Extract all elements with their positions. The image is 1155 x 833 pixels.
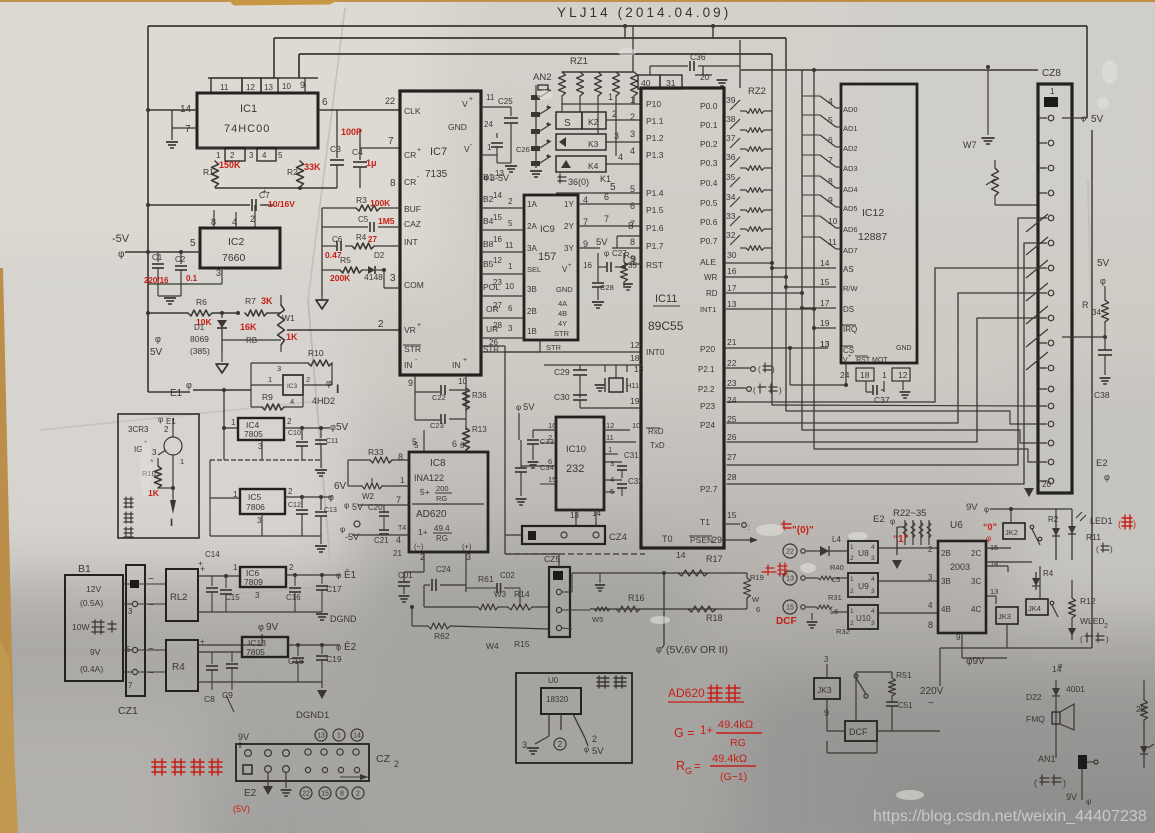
svg-text:φ: φ — [584, 745, 589, 754]
svg-text:C37: C37 — [874, 395, 890, 405]
svg-text:IC10: IC10 — [566, 444, 586, 455]
svg-text:P0.1: P0.1 — [700, 120, 718, 130]
svg-text:14: 14 — [820, 258, 830, 268]
svg-text:P1.2: P1.2 — [646, 133, 664, 143]
svg-text:157: 157 — [538, 251, 556, 263]
svg-text:U9: U9 — [858, 581, 869, 591]
svg-text:AN1: AN1 — [1038, 754, 1056, 764]
svg-text:9: 9 — [631, 254, 636, 264]
svg-text:1: 1 — [608, 445, 612, 454]
svg-text:IC1: IC1 — [240, 103, 257, 115]
svg-text:22: 22 — [786, 549, 794, 556]
svg-text:5V: 5V — [352, 502, 363, 512]
svg-text:5V: 5V — [1091, 114, 1104, 125]
wires AD pins to bus — [802, 95, 820, 97]
svg-text:CLK: CLK — [404, 106, 421, 116]
ground R35 — [623, 283, 633, 285]
svg-text:3B: 3B — [941, 577, 951, 586]
svg-text:20: 20 — [1042, 480, 1051, 489]
svg-text:=: = — [694, 761, 701, 773]
wire R1 R2 bottom — [215, 187, 337, 189]
svg-text:φ: φ — [984, 505, 989, 514]
svg-text:24: 24 — [840, 370, 850, 380]
DGND — [198, 611, 322, 613]
svg-text:34: 34 — [1092, 308, 1101, 317]
wire 9V rail — [990, 508, 1040, 510]
IC5 ground — [261, 514, 263, 536]
wire D1 to RB row — [221, 340, 223, 352]
whiteout patches — [140, 48, 1118, 800]
svg-text:φ: φ — [656, 644, 662, 654]
svg-text:4: 4 — [262, 151, 267, 160]
svg-text:T1: T1 — [700, 517, 710, 527]
svg-text:6: 6 — [452, 439, 457, 449]
svg-text:3: 3 — [152, 448, 157, 457]
ground spur lineA — [599, 573, 601, 583]
svg-text:JK2: JK2 — [1005, 528, 1018, 537]
wire IC2 pin3 down — [148, 283, 222, 285]
svg-text:(5V,6V OR II): (5V,6V OR II) — [666, 644, 728, 656]
svg-text:C36: C36 — [690, 52, 706, 62]
ground IC4 — [320, 460, 322, 468]
svg-text:4: 4 — [630, 146, 635, 156]
svg-text:7: 7 — [604, 214, 609, 224]
svg-text:1A: 1A — [527, 200, 537, 209]
svg-text:13: 13 — [317, 733, 325, 740]
svg-text:RL2: RL2 — [170, 592, 187, 603]
wire RD to bus C — [724, 292, 802, 294]
svg-text:7: 7 — [185, 124, 191, 135]
svg-text:(: ( — [1118, 519, 1121, 529]
svg-text:+: + — [568, 263, 572, 269]
svg-text:T0: T0 — [662, 534, 673, 544]
svg-text:3: 3 — [610, 459, 614, 468]
IC1 top pin boxes 11 12 13 — [211, 78, 242, 93]
svg-text:11: 11 — [505, 241, 514, 250]
JK4 switch — [1050, 601, 1054, 605]
wire IC1 pin9 up — [298, 54, 300, 78]
wire crystal legs — [604, 365, 606, 372]
IC13 7805 box — [242, 637, 288, 657]
svg-text:6: 6 — [460, 441, 465, 450]
svg-text:(5V): (5V) — [233, 804, 250, 814]
svg-text:T4: T4 — [398, 525, 406, 532]
svg-text:(0.5A): (0.5A) — [80, 598, 103, 608]
svg-text:28: 28 — [493, 321, 502, 330]
svg-text:C22: C22 — [432, 393, 446, 402]
wire P20 to IC12 CS — [724, 347, 828, 349]
svg-text:Ē1: Ē1 — [344, 569, 357, 581]
wire -5V to IC2 pin5 — [125, 251, 200, 253]
svg-text:1: 1 — [400, 476, 405, 485]
svg-text:4A: 4A — [558, 299, 567, 308]
svg-text:IN: IN — [404, 360, 413, 370]
svg-text:8069: 8069 — [190, 334, 209, 344]
svg-text:“0”: “0” — [983, 522, 997, 532]
svg-text:RD: RD — [706, 289, 718, 298]
LED1 diode — [1071, 515, 1073, 560]
svg-text:C25: C25 — [498, 97, 513, 106]
svg-text:CR: CR — [404, 177, 416, 187]
svg-text:7805: 7805 — [246, 647, 265, 657]
svg-text:18320: 18320 — [546, 695, 569, 704]
svg-text:11: 11 — [828, 237, 837, 247]
wire title drop 1 — [624, 26, 626, 38]
svg-text:φ: φ — [155, 334, 161, 344]
svg-text:DCF: DCF — [849, 727, 868, 737]
svg-text:5V: 5V — [150, 347, 163, 358]
wire IC13 out — [288, 644, 340, 646]
wire R5 junction — [382, 268, 386, 272]
svg-text:4: 4 — [871, 608, 875, 615]
svg-text:~: ~ — [928, 698, 934, 709]
thyristor symbol — [1140, 746, 1148, 754]
wire bottom bus 9V — [940, 647, 1092, 649]
svg-text:): ) — [772, 365, 775, 374]
svg-text:I: I — [336, 382, 339, 396]
svg-text:C51: C51 — [898, 701, 913, 710]
svg-text:C2: C2 — [175, 255, 186, 264]
svg-text:1K: 1K — [286, 332, 298, 342]
svg-text:2: 2 — [1104, 623, 1108, 630]
svg-text:3: 3 — [255, 591, 260, 600]
svg-text:37: 37 — [726, 133, 736, 143]
svg-text:9V: 9V — [966, 502, 978, 513]
svg-text:R33: R33 — [368, 447, 384, 457]
svg-text:E2: E2 — [1096, 458, 1108, 469]
cewen label strokes — [597, 676, 626, 688]
caps C8 C9 area — [211, 652, 213, 664]
svg-text:4: 4 — [290, 397, 294, 406]
svg-text:P0.3: P0.3 — [700, 158, 718, 168]
svg-text:7806: 7806 — [246, 502, 265, 512]
svg-text:1: 1 — [268, 375, 272, 384]
wires CZ1 to RL2 — [138, 583, 166, 585]
svg-text:RST: RST — [856, 357, 871, 364]
svg-text:10: 10 — [282, 82, 291, 91]
svg-text:12: 12 — [493, 256, 502, 265]
svg-text:RZ1: RZ1 — [570, 56, 588, 67]
svg-text:R7: R7 — [245, 296, 256, 306]
svg-text:C20: C20 — [368, 503, 383, 512]
svg-text:R51: R51 — [896, 670, 912, 680]
svg-text:AD6: AD6 — [843, 225, 858, 234]
wire E1 to IC3 — [223, 390, 225, 428]
wire CZ5 top — [558, 554, 560, 567]
svg-text:S: S — [564, 118, 571, 129]
wires AS RW DS IRQ to buses — [772, 267, 836, 269]
key K4 box — [556, 156, 606, 172]
svg-text:R16: R16 — [628, 593, 645, 603]
IC2 7660 box — [200, 228, 280, 268]
diode D14 — [1039, 566, 1041, 599]
svg-text:W5: W5 — [592, 615, 603, 624]
AN2 button symbol — [538, 85, 548, 90]
wire IC8 out2 bus — [423, 585, 425, 607]
svg-text:2: 2 — [378, 319, 384, 330]
svg-text:49.4: 49.4 — [434, 524, 450, 533]
svg-text:232: 232 — [566, 463, 584, 475]
svg-text:P0.5: P0.5 — [700, 198, 718, 208]
IC11 89C55 box — [641, 88, 724, 548]
svg-text:18: 18 — [860, 370, 870, 380]
svg-text:12: 12 — [898, 370, 908, 380]
svg-text:φ: φ — [330, 422, 336, 432]
wire CZ4 left down — [505, 534, 522, 536]
svg-text:12: 12 — [630, 340, 640, 350]
CZ8 box — [1038, 84, 1072, 493]
RZ1 resistors — [559, 72, 566, 96]
svg-text:3: 3 — [630, 129, 635, 139]
wire top outer rail — [148, 25, 1087, 27]
svg-text:7: 7 — [128, 681, 133, 690]
svg-text:13: 13 — [570, 511, 579, 520]
wire RZ1 col1 to P10 — [562, 103, 641, 105]
svg-text:E1: E1 — [170, 388, 183, 399]
svg-text:3: 3 — [466, 552, 471, 562]
svg-text:φ: φ — [258, 622, 264, 632]
svg-text:1+: 1+ — [700, 725, 713, 737]
resistor R10star — [155, 466, 162, 488]
svg-text:CAZ: CAZ — [404, 219, 421, 229]
svg-text:C12: C12 — [288, 502, 301, 509]
wire right rail bottom — [1091, 620, 1093, 648]
svg-text:“1”: “1” — [893, 534, 909, 545]
IC9 157 box — [524, 195, 578, 340]
svg-text:27: 27 — [727, 452, 737, 462]
wire IC4 out — [284, 427, 330, 429]
svg-text:U8: U8 — [858, 548, 869, 558]
svg-text:C31: C31 — [624, 451, 639, 460]
wire IC6 out — [286, 574, 340, 576]
bus lines to CZ8 lower circles — [772, 405, 1038, 406]
svg-text:RZ2: RZ2 — [748, 86, 766, 97]
CZ2 bottom row — [243, 765, 252, 774]
svg-text:φ: φ — [1104, 472, 1110, 482]
svg-text:11: 11 — [486, 93, 495, 102]
right rail below 5V — [1091, 130, 1093, 620]
svg-text:K2: K2 — [588, 117, 599, 127]
svg-text:2: 2 — [394, 759, 399, 769]
svg-text:R: R — [676, 759, 685, 773]
svg-text:24: 24 — [484, 120, 493, 129]
svg-text:DCF: DCF — [776, 616, 797, 627]
svg-text:16: 16 — [727, 266, 737, 276]
ground top right — [987, 70, 989, 135]
svg-text:C1: C1 — [152, 253, 163, 262]
svg-text:P24: P24 — [700, 420, 715, 430]
svg-text:11: 11 — [220, 83, 229, 92]
svg-text:20: 20 — [700, 72, 710, 82]
svg-text:W2: W2 — [362, 492, 375, 501]
svg-text:(: ( — [1034, 778, 1037, 788]
LED1 red chong — [1122, 515, 1132, 529]
vertical bus C — [801, 70, 803, 430]
svg-text:V: V — [462, 99, 468, 109]
svg-text:5: 5 — [190, 238, 196, 249]
svg-text:G: G — [685, 766, 692, 776]
circled 15 input DCF — [783, 600, 797, 614]
svg-text:21: 21 — [393, 549, 402, 558]
svg-text:"(0)": "(0)" — [792, 525, 814, 536]
svg-text:φ: φ — [1086, 797, 1091, 806]
nested L wires P23-P28 to CZ8 — [727, 268, 1038, 402]
RL2 rectifier box — [166, 569, 198, 621]
svg-text:GND: GND — [448, 122, 467, 132]
svg-text:C5: C5 — [358, 215, 369, 224]
svg-text:2: 2 — [356, 791, 360, 798]
svg-text:~: ~ — [148, 668, 154, 679]
svg-text:11: 11 — [606, 433, 614, 442]
DGND1 arrow — [212, 681, 322, 683]
svg-text:19: 19 — [630, 396, 640, 406]
svg-text:DS: DS — [843, 305, 854, 314]
svg-text:2: 2 — [250, 214, 255, 224]
svg-text:C11: C11 — [326, 438, 338, 445]
STR bottom wire — [539, 340, 541, 352]
svg-text:6: 6 — [548, 457, 552, 466]
svg-text:U6: U6 — [950, 520, 963, 531]
svg-text:P2.1: P2.1 — [698, 365, 715, 374]
svg-text:16: 16 — [548, 421, 556, 430]
svg-text:JK4: JK4 — [1028, 604, 1041, 613]
svg-text:IC8: IC8 — [430, 458, 446, 469]
wire P17 row — [612, 247, 641, 249]
svg-text:36: 36 — [726, 152, 736, 162]
svg-text:23: 23 — [727, 378, 737, 388]
svg-text:150K: 150K — [219, 160, 241, 170]
svg-text:R19: R19 — [750, 573, 764, 582]
relay switch lower — [855, 672, 857, 712]
svg-text:IC7: IC7 — [430, 146, 447, 158]
svg-text:4B: 4B — [941, 605, 951, 614]
red he 0 label — [782, 521, 791, 530]
svg-text:4: 4 — [871, 576, 875, 583]
wire title drop 2 — [712, 26, 714, 38]
svg-text:WR: WR — [704, 273, 718, 282]
svg-text:BUF: BUF — [404, 204, 421, 214]
svg-text:W1: W1 — [282, 313, 295, 323]
svg-text:2: 2 — [164, 425, 169, 434]
svg-text:2: 2 — [592, 734, 597, 744]
svg-text:INT0: INT0 — [646, 347, 665, 357]
wires IC9 outputs to IC11 — [578, 203, 641, 205]
svg-text:5: 5 — [278, 151, 283, 160]
wire 26 to INT0 — [505, 351, 641, 353]
svg-text:φ: φ — [326, 378, 332, 388]
svg-text:5V: 5V — [1097, 258, 1110, 269]
svg-text:R3: R3 — [356, 195, 367, 205]
svg-text:22: 22 — [302, 791, 310, 798]
svg-text:φ: φ — [336, 571, 341, 580]
svg-text:35: 35 — [726, 172, 736, 182]
svg-text:2: 2 — [850, 588, 854, 595]
svg-text:3: 3 — [871, 588, 875, 595]
svg-text:JK3: JK3 — [817, 685, 832, 695]
svg-text:C38: C38 — [1094, 390, 1110, 400]
svg-text:CZ8: CZ8 — [1042, 68, 1061, 79]
svg-text:1: 1 — [508, 262, 513, 271]
circled 13 input — [783, 571, 797, 585]
svg-text:2B: 2B — [941, 549, 951, 558]
svg-text:): ) — [1063, 778, 1066, 788]
svg-text:C19: C19 — [326, 654, 342, 664]
svg-text:P23: P23 — [700, 401, 715, 411]
optocoupler U8 — [848, 541, 878, 563]
svg-text:C30: C30 — [554, 392, 570, 402]
constant current source outline — [118, 414, 199, 538]
svg-text:JK3: JK3 — [998, 612, 1011, 621]
wires B1 to CZ1 — [123, 583, 130, 585]
svg-text:74HC00: 74HC00 — [224, 123, 270, 135]
wire INT1 to bus D — [724, 308, 814, 310]
ground at IC1 pin7 — [171, 128, 173, 140]
svg-text:R4: R4 — [356, 233, 367, 242]
ground C25 C26 — [497, 162, 511, 164]
svg-text:φ: φ — [1081, 114, 1086, 123]
svg-text:7135: 7135 — [425, 169, 448, 180]
svg-text:RG: RG — [436, 534, 448, 543]
ground AN2 — [530, 170, 542, 172]
svg-text:R31: R31 — [828, 593, 842, 602]
IC8 output pins down — [423, 552, 425, 572]
svg-text:(−): (−) — [414, 542, 424, 551]
svg-text:K3: K3 — [588, 139, 599, 149]
svg-text:8: 8 — [928, 620, 933, 630]
svg-text:19: 19 — [820, 318, 830, 328]
svg-text:R/W: R/W — [843, 284, 859, 293]
svg-text:5: 5 — [508, 219, 513, 228]
svg-text:17: 17 — [820, 298, 830, 308]
buzzer symbol — [1055, 700, 1057, 726]
svg-text:1: 1 — [882, 370, 887, 380]
wire K1 to P14 — [556, 192, 641, 194]
svg-text:TxD: TxD — [650, 441, 665, 450]
IC8 box — [409, 452, 488, 552]
svg-text:89C55: 89C55 — [648, 319, 684, 333]
ground IC11 pin20 — [717, 79, 728, 81]
svg-text:26: 26 — [727, 432, 737, 442]
svg-text:1μ: 1μ — [366, 158, 377, 168]
CZ8 diagonal switch strokes — [1026, 214, 1048, 232]
svg-text:C02: C02 — [500, 571, 515, 580]
svg-text:5V: 5V — [523, 402, 535, 413]
svg-text:VR: VR — [404, 325, 416, 335]
svg-text:1: 1 — [231, 418, 236, 427]
svg-text:R10: R10 — [308, 348, 324, 358]
resistor R2 — [297, 161, 304, 187]
svg-text:27: 27 — [368, 235, 377, 244]
wire top rail 2 — [274, 37, 786, 39]
ground crystal — [595, 384, 606, 386]
wire IC7 V+ to C25 — [481, 106, 511, 108]
svg-text:DGND1: DGND1 — [296, 710, 329, 721]
wire STR 26 long line — [481, 345, 505, 347]
svg-text:3: 3 — [277, 364, 281, 373]
wire main line A — [562, 591, 572, 593]
svg-text:2: 2 — [558, 740, 563, 749]
RZ2 resistors — [746, 109, 764, 114]
svg-text:+: + — [848, 354, 852, 360]
svg-text:5: 5 — [610, 182, 616, 193]
svg-text:): ) — [1106, 635, 1109, 644]
svg-text:0.1: 0.1 — [186, 274, 198, 283]
U6 out 3C wire — [986, 565, 1008, 567]
svg-text:AD0: AD0 — [843, 105, 858, 114]
circled 13 1 14 — [315, 729, 327, 741]
CZ8 pin circles — [1048, 115, 1054, 121]
svg-text:1: 1 — [233, 563, 238, 572]
